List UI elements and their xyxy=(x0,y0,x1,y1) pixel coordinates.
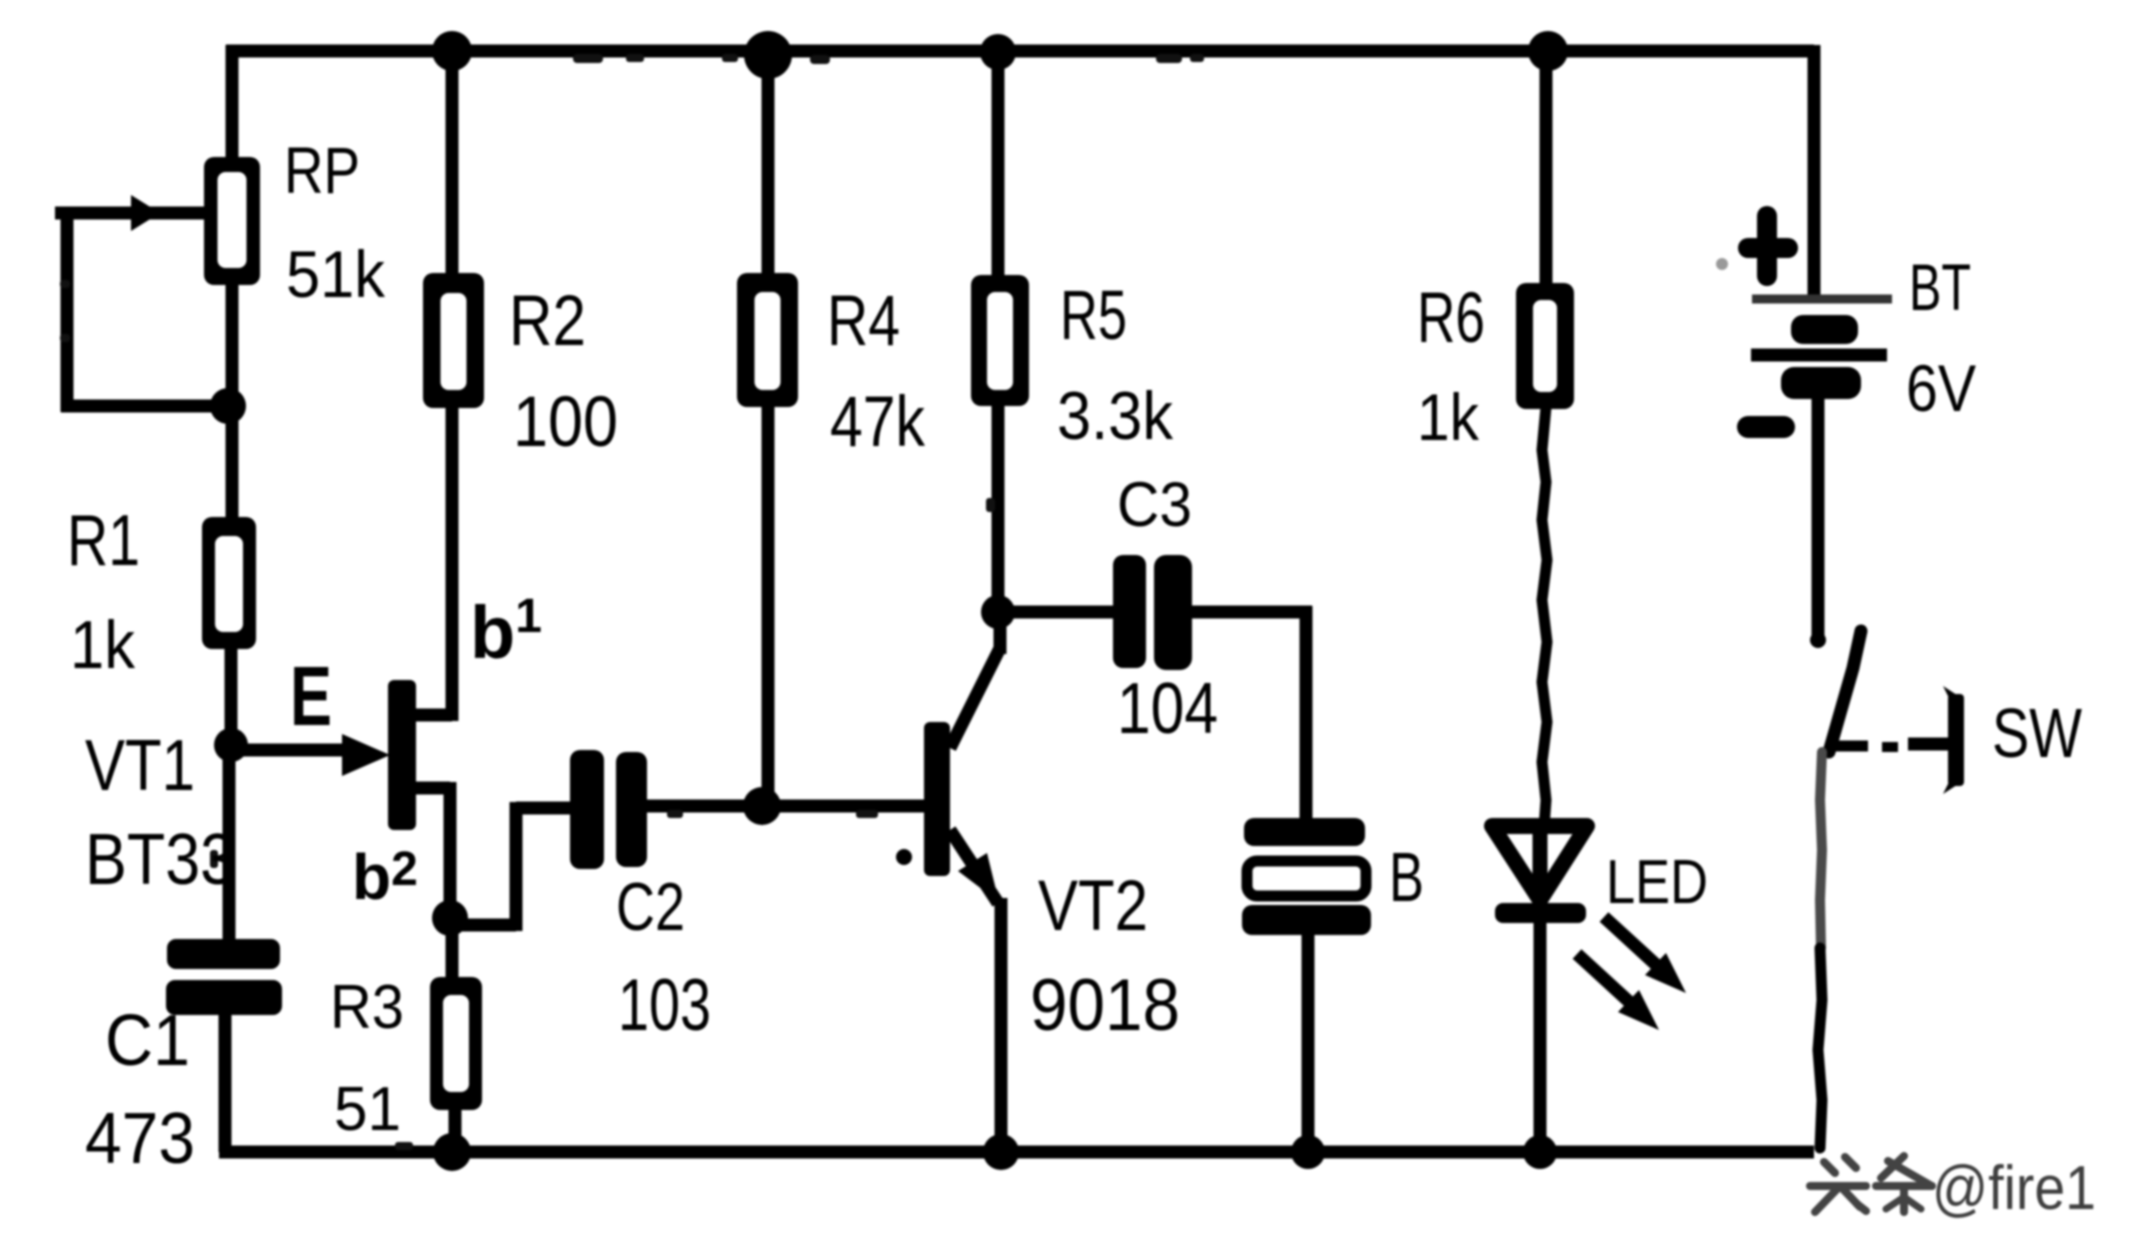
svg-text:9018: 9018 xyxy=(1030,965,1180,1046)
svg-text:R4: R4 xyxy=(827,282,900,361)
svg-text:51k: 51k xyxy=(286,237,386,311)
svg-text:@fire1: @fire1 xyxy=(1932,1154,2096,1223)
svg-text:C2: C2 xyxy=(616,869,685,945)
svg-text:B: B xyxy=(1389,838,1424,916)
svg-text:E: E xyxy=(290,649,332,743)
svg-text:47k: 47k xyxy=(830,383,925,462)
svg-text:3.3k: 3.3k xyxy=(1057,378,1174,454)
svg-text:100: 100 xyxy=(513,383,618,462)
svg-text:R1: R1 xyxy=(67,501,140,581)
svg-text:b1: b1 xyxy=(470,590,542,674)
svg-text:51: 51 xyxy=(334,1075,401,1144)
svg-text:473: 473 xyxy=(85,1099,195,1179)
svg-text:RP: RP xyxy=(284,133,360,207)
svg-text:R3: R3 xyxy=(330,973,404,1042)
svg-text:BT33: BT33 xyxy=(85,820,235,900)
svg-text:6V: 6V xyxy=(1906,351,1976,425)
svg-text:C1: C1 xyxy=(105,1001,190,1081)
svg-text:103: 103 xyxy=(618,965,711,1046)
svg-text:C3: C3 xyxy=(1117,470,1192,540)
svg-text:1k: 1k xyxy=(1417,380,1480,454)
svg-text:VT2: VT2 xyxy=(1038,867,1148,946)
svg-text:R5: R5 xyxy=(1060,276,1127,354)
svg-text:LED: LED xyxy=(1606,848,1708,917)
svg-text:R2: R2 xyxy=(509,282,586,361)
svg-text:VT1: VT1 xyxy=(85,726,195,806)
svg-text:R6: R6 xyxy=(1417,279,1485,358)
svg-text:1k: 1k xyxy=(70,607,136,683)
svg-text:b2: b2 xyxy=(352,841,418,913)
svg-text:BT: BT xyxy=(1909,250,1971,324)
svg-text:SW: SW xyxy=(1992,694,2082,772)
svg-text:104: 104 xyxy=(1117,669,1218,749)
